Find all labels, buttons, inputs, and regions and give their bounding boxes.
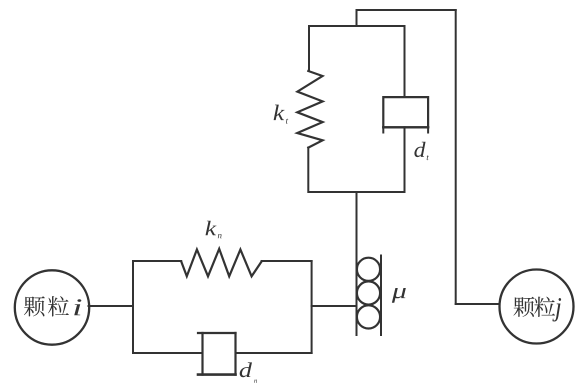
label k of kt (tangential spring) xyxy=(274,105,285,120)
particle i label char ke (ke-li = particle) xyxy=(24,296,45,316)
wire horizontal into particle j xyxy=(456,303,500,305)
damper dn top edge with left tick xyxy=(198,332,236,334)
particle j circle xyxy=(500,270,574,344)
particle j label italic j xyxy=(552,298,561,321)
wire top rail xyxy=(357,9,456,11)
label d of dt (tangential damper) xyxy=(414,142,425,157)
label subscript t of dt xyxy=(427,155,429,160)
normal loop top edge left segment xyxy=(133,260,181,262)
damper dt right side tick xyxy=(427,127,429,132)
normal loop top edge right segment xyxy=(262,260,312,262)
wire left edge below spring kt xyxy=(307,148,309,192)
damper dn cylinder box sides xyxy=(203,333,236,375)
friction roller circle bottom xyxy=(357,305,380,328)
wire left edge above spring kt xyxy=(308,26,310,71)
wire top stub from tangential box to top rail xyxy=(356,10,358,26)
friction roller circle middle xyxy=(357,281,380,304)
wire right edge below damper dt xyxy=(404,127,406,192)
tangential box top edge xyxy=(309,25,405,27)
friction roller circle top xyxy=(357,258,380,281)
wire center shaft / friction left rail xyxy=(356,192,358,335)
particle i label italic i xyxy=(74,299,81,315)
label d of dn (normal damper) xyxy=(240,362,252,377)
particle i label char li xyxy=(48,296,69,316)
label k of kn (normal spring) xyxy=(206,221,217,235)
particle i circle xyxy=(15,270,89,344)
normal loop bottom edge right segment xyxy=(236,352,312,354)
damper dt cylinder box xyxy=(383,97,428,127)
damper dt left side tick xyxy=(382,127,384,132)
normal loop left edge xyxy=(132,261,134,353)
wire particle i to normal loop xyxy=(89,305,134,307)
spring kn xyxy=(181,249,261,276)
label subscript n of kn xyxy=(218,234,222,238)
wire right edge above damper dt xyxy=(404,26,406,97)
damper dn bottom edge with left tick xyxy=(198,373,236,376)
particle j label char li xyxy=(534,297,555,317)
particle j label char ke xyxy=(513,297,534,317)
normal loop right edge xyxy=(311,261,313,353)
label mu friction coefficient xyxy=(392,288,406,303)
tangential box bottom edge xyxy=(309,191,405,193)
wire right drop toward particle j xyxy=(455,10,457,304)
damper dt piston plate thick bottom edge xyxy=(383,126,428,128)
normal loop bottom edge left segment xyxy=(133,352,203,354)
wire normal loop to friction element xyxy=(312,305,356,307)
label subscript t of kt xyxy=(286,119,288,124)
spring kt xyxy=(297,71,322,148)
friction slider right rail xyxy=(380,256,382,336)
label subscript n of dn xyxy=(254,380,257,383)
